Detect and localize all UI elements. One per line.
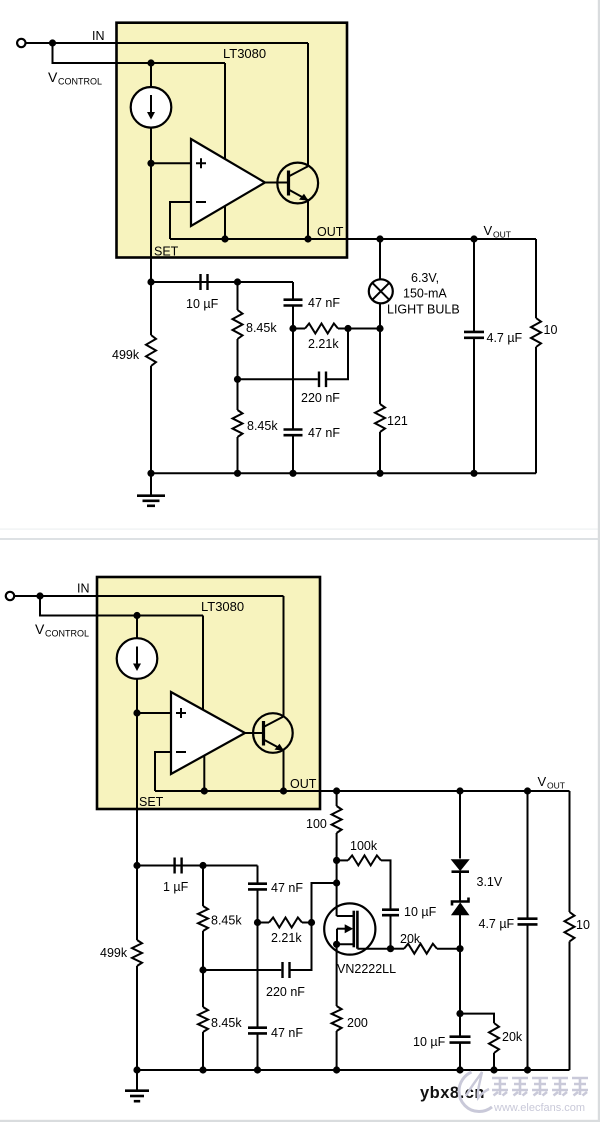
svg-text:8.45k: 8.45k <box>247 419 278 433</box>
svg-text:V: V <box>484 223 493 238</box>
svg-text:OUT: OUT <box>317 225 344 239</box>
wire op-amp plus input bottom <box>137 712 171 714</box>
label 8.45k lower bottom <box>211 1016 242 1030</box>
wire 47nF lower column bottom <box>257 923 259 1028</box>
svg-text:10: 10 <box>544 323 558 337</box>
label 1 uF <box>163 880 189 894</box>
node diode column tap OUT <box>456 787 463 794</box>
label SET pin bottom <box>139 795 164 809</box>
wire Vcontrol inside box bottom <box>97 615 203 617</box>
svg-text:CONTROL: CONTROL <box>45 629 89 639</box>
capacitor C 10uF mid <box>382 910 399 916</box>
wire minus feedback top <box>170 202 191 239</box>
svg-text:1 µF: 1 µF <box>163 880 189 894</box>
wire 100k left stub <box>337 859 348 861</box>
svg-text:3.1V: 3.1V <box>477 875 503 889</box>
wire current source feed top <box>150 63 152 87</box>
resistor R 100k <box>348 855 381 865</box>
wire SET row top <box>151 281 293 283</box>
capacitor C 47nF upper bottom <box>248 884 267 890</box>
resistor R 2.21k top <box>305 324 338 334</box>
svg-text:2.21k: 2.21k <box>271 931 302 945</box>
svg-text:121: 121 <box>387 414 408 428</box>
wire 2.21k right stub bottom <box>302 922 312 924</box>
wire 121 to rail top <box>379 432 381 473</box>
svg-text:47 nF: 47 nF <box>271 881 303 895</box>
capacitor C 10uF top <box>199 274 208 290</box>
capacitor C 4.7uF bottom <box>518 919 538 925</box>
node gate link junction <box>333 879 340 886</box>
svg-text:OUT: OUT <box>547 781 565 791</box>
ground symbol top <box>137 473 165 506</box>
wire clamp column lower <box>459 949 461 1014</box>
node 2.21k right top <box>344 325 351 332</box>
wire 8.45k upper feed bottom <box>202 866 204 907</box>
node rail 10uF bottom <box>456 1066 463 1073</box>
label 10 uF bottom <box>413 1035 446 1049</box>
node op-amp V- junction top <box>221 235 228 242</box>
node current source tap top <box>147 59 154 66</box>
capacitor C 10uF bottom <box>450 1037 471 1043</box>
resistor R 20k horizontal <box>404 944 437 954</box>
node cap4.7 tap OUT top <box>470 235 477 242</box>
label 20k vertical <box>502 1030 523 1044</box>
wire SET row bottom <box>137 865 258 867</box>
resistor R 2.21k bottom <box>269 918 302 928</box>
wire zener to 20k node <box>459 915 461 949</box>
label VOUT top <box>484 223 511 240</box>
wire 499k feed top <box>150 282 152 335</box>
wire cap4.7 column lower top <box>473 338 475 474</box>
watermark elecfans chinese text <box>492 1078 588 1096</box>
node junction Vcontrol tap bottom <box>36 592 43 599</box>
svg-text:2.21k: 2.21k <box>308 337 339 351</box>
wire OUT rail bottom <box>284 790 570 792</box>
wire IN rail inside box top <box>116 42 308 44</box>
svg-text:220 nF: 220 nF <box>301 391 340 405</box>
label 499k bottom <box>100 946 128 960</box>
svg-text:6.3V,: 6.3V, <box>411 271 439 285</box>
capacitor C 47nF upper top <box>284 300 303 306</box>
wire feedback row bottom <box>155 790 284 792</box>
node rail 200 bottom <box>333 1066 340 1073</box>
op-amp A2 bottom <box>171 692 245 774</box>
wire 20k vertical to rail <box>493 1053 495 1070</box>
svg-text:220 nF: 220 nF <box>266 985 305 999</box>
wire 47nF to midrow bottom <box>257 889 259 922</box>
wire 100 to gate node <box>336 833 338 916</box>
svg-text:OUT: OUT <box>290 777 317 791</box>
wire 10 resistor lower bottom <box>569 942 571 1071</box>
svg-text:SET: SET <box>139 795 164 809</box>
node rail 47nF top <box>289 470 296 477</box>
svg-text:499k: 499k <box>112 348 140 362</box>
svg-text:IN: IN <box>92 29 105 43</box>
wire gate link row <box>312 883 337 923</box>
label 4.7 uF top <box>487 331 523 345</box>
ground symbol bottom <box>125 1070 149 1101</box>
wire midrow right stub top <box>338 328 380 330</box>
svg-text:100k: 100k <box>350 839 378 853</box>
wire IN rail top <box>26 42 309 44</box>
IC body LT3080 U1 (yellow box) <box>117 23 348 258</box>
resistor R 10 bottom <box>565 912 575 942</box>
label 10 uF top <box>186 297 219 311</box>
wire IN rail inside box bottom <box>97 595 284 597</box>
wire 2.21k left stub bottom <box>258 922 270 924</box>
label 2.21k top <box>308 337 339 351</box>
label VN2222LL <box>337 962 396 976</box>
label SET pin top <box>154 245 179 259</box>
svg-text:VN2222LL: VN2222LL <box>337 962 396 976</box>
wire 20k left stub <box>391 948 405 950</box>
wire 499k lower bottom <box>136 966 138 1070</box>
svg-text:8.45k: 8.45k <box>211 1016 242 1030</box>
wire OUT rail top <box>308 238 536 240</box>
node current source tap bottom <box>133 612 140 619</box>
label 4.7 uF bottom <box>479 917 515 931</box>
wire base drive top <box>265 182 289 184</box>
wire 47nF to midrow top <box>292 306 294 329</box>
wire 100k right jog <box>381 860 391 909</box>
right border line <box>598 0 600 1122</box>
wire Vout right column bottom <box>569 791 571 912</box>
wire 4.7uF column lower bottom <box>527 924 529 1070</box>
wire 8.45k lower feed bottom <box>202 970 204 1007</box>
resistor R 10 top <box>531 318 541 347</box>
label IN pin top <box>92 29 105 43</box>
watermark ybx8.cn <box>420 1084 485 1102</box>
wire 8.45k to 220nF node top <box>237 339 239 379</box>
capacitor C 47nF lower bottom <box>248 1028 267 1034</box>
svg-text:IN: IN <box>77 582 90 596</box>
wire 10uF bottom column <box>459 1014 461 1037</box>
wire 220nF left row top <box>238 378 318 380</box>
wire collector column top <box>307 43 309 166</box>
svg-text:SET: SET <box>154 245 179 259</box>
node midrow left bottom <box>254 919 261 926</box>
label 10 uF mid <box>404 905 437 919</box>
svg-text:47 nF: 47 nF <box>308 426 340 440</box>
label 8.45k upper bottom <box>211 914 242 928</box>
wire collector column bottom <box>283 596 285 717</box>
wire 47nF lower to rail top <box>292 435 294 473</box>
label 100 <box>306 817 327 831</box>
watermark elecfans url <box>493 1102 585 1114</box>
label 47 nF upper bottom <box>271 881 303 895</box>
wire 499k lower top <box>150 366 152 473</box>
wire Vout right column top <box>535 239 537 318</box>
label 220 nF bottom <box>266 985 305 999</box>
node rail 499k bottom <box>133 1066 140 1073</box>
label LIGHT BULB <box>387 303 460 317</box>
wire Vcontrol jog top <box>53 43 226 63</box>
label plus input bottom <box>176 708 186 718</box>
wire 47nF top column <box>292 282 294 300</box>
label 6.3V bulb <box>411 271 439 285</box>
node midrow left top <box>289 325 296 332</box>
svg-text:150-mA: 150-mA <box>403 287 447 301</box>
node op-amp V- junction bottom <box>201 787 208 794</box>
watermark elecfans swirl icon <box>459 1072 492 1112</box>
resistor R 20k vertical <box>489 1023 499 1053</box>
node rail 4.7uF bottom <box>524 1066 531 1073</box>
current source I1 top <box>131 87 172 128</box>
node 8.45k top tap <box>234 278 241 285</box>
svg-text:V: V <box>538 774 547 789</box>
svg-text:OUT: OUT <box>493 230 511 240</box>
resistor R 499k bottom <box>132 940 142 966</box>
wire IN rail bottom <box>14 595 283 597</box>
label 220 nF top <box>301 391 340 405</box>
svg-text:V: V <box>48 69 58 85</box>
node bulb bottom junction top <box>376 325 383 332</box>
node 220nF left junction top <box>234 376 241 383</box>
svg-text:ybx8.cn: ybx8.cn <box>420 1084 485 1102</box>
node zener clamp junction <box>456 945 463 952</box>
transistor Q1 top <box>277 163 318 204</box>
capacitor C 220nF top <box>318 372 327 388</box>
mosfet Q3 VN2222LL <box>324 903 390 954</box>
svg-text:CONTROL: CONTROL <box>58 77 102 87</box>
svg-text:20k: 20k <box>400 932 421 946</box>
wire Vcontrol jog bottom <box>40 596 203 616</box>
wire 4.7uF column upper bottom <box>527 791 529 919</box>
transistor Q2 bottom <box>253 713 293 753</box>
svg-text:4.7 µF: 4.7 µF <box>479 917 515 931</box>
wire 499k feed bottom <box>136 866 138 941</box>
label 8.45k upper top <box>246 321 277 335</box>
wire emitter column bottom <box>283 750 285 791</box>
node rail 499k top <box>147 470 154 477</box>
wire current source feed bottom <box>136 616 138 639</box>
label LT3080 bottom <box>201 599 244 614</box>
label 10 top <box>544 323 558 337</box>
wire ground rail bottom <box>137 1069 570 1071</box>
node SET row left bottom <box>133 862 140 869</box>
wire ground rail top <box>151 472 536 474</box>
wire source column to 200 <box>336 944 338 1006</box>
resistor R 8.45k lower bottom <box>198 1007 208 1032</box>
wire op-amp V- stub bottom <box>203 756 205 791</box>
input terminal (bottom circuit) <box>6 592 14 600</box>
label 8.45k lower top <box>247 419 278 433</box>
resistor R 121 top <box>375 404 385 432</box>
node 100k left junction <box>333 857 340 864</box>
svg-text:10: 10 <box>576 918 590 932</box>
wire 10uF bottom to rail <box>459 1043 461 1070</box>
svg-text:LT3080: LT3080 <box>201 599 244 614</box>
svg-text:200: 200 <box>347 1016 368 1030</box>
wire op-amp V+ stub top <box>224 63 226 160</box>
svg-text:LIGHT BULB: LIGHT BULB <box>387 303 460 317</box>
svg-text:10 µF: 10 µF <box>413 1035 446 1049</box>
wire between diodes <box>459 872 461 902</box>
wire 2.21k down jog top <box>326 329 348 380</box>
wire op-amp V- stub top <box>224 206 226 239</box>
node SET row left top <box>147 278 154 285</box>
wire Vcontrol inside box top <box>116 62 225 64</box>
wire 200 to rail <box>336 1031 338 1070</box>
label VCONTROL top <box>48 69 102 87</box>
label 150-mA bulb <box>403 287 447 301</box>
label 2.21k bottom <box>271 931 302 945</box>
wire 220nF left row bottom <box>203 969 281 971</box>
capacitor C 47nF lower top <box>284 430 303 436</box>
wire bulb to node top <box>379 303 381 329</box>
wire 121 feed top <box>379 329 381 405</box>
label plus input top <box>196 158 206 168</box>
node rail 8.45k bottom <box>199 1066 206 1073</box>
label 200 <box>347 1016 368 1030</box>
wire 47nF lower to rail bottom <box>257 1033 259 1070</box>
label 47 nF upper top <box>308 296 340 310</box>
wire 8.45k lower to rail bottom <box>202 1032 204 1070</box>
label OUT pin bottom <box>290 777 317 791</box>
capacitor C 220nF bottom <box>281 962 290 978</box>
label 499k top <box>112 348 140 362</box>
resistor R 8.45k lower top <box>233 410 243 437</box>
node mosfet source junction <box>333 941 340 948</box>
current source I2 bottom <box>117 638 158 679</box>
label 47 nF lower top <box>308 426 340 440</box>
input terminal (top circuit) <box>17 39 25 47</box>
wire 8.45k lower to rail top <box>237 437 239 473</box>
svg-text:4.7 µF: 4.7 µF <box>487 331 523 345</box>
diode D1 <box>452 860 470 872</box>
svg-text:10 µF: 10 µF <box>404 905 437 919</box>
svg-text:www.elecfans.com: www.elecfans.com <box>493 1102 585 1114</box>
wire OUT to 100 resistor <box>336 791 338 806</box>
node rail 8.45k top <box>234 470 241 477</box>
wire 8.45k upper feed top <box>237 282 239 310</box>
wire feedback row top <box>170 238 308 240</box>
op-amp A1 top <box>191 139 265 226</box>
svg-text:V: V <box>35 621 45 637</box>
capacitor C 4.7uF top <box>464 332 484 338</box>
label 121 top <box>387 414 408 428</box>
svg-text:8.45k: 8.45k <box>211 914 242 928</box>
node 8.45k tap bottom <box>199 862 206 869</box>
label VOUT bottom <box>538 774 565 791</box>
node 4.7uF tap OUT bottom <box>524 787 531 794</box>
node plus input junction top <box>147 160 154 167</box>
separator line between images <box>0 529 600 541</box>
node 2.21k right bottom <box>308 919 315 926</box>
label 3.1V <box>477 875 503 889</box>
label 20k horizontal <box>400 932 421 946</box>
IC body LT3080 U2 (yellow box) <box>97 577 320 809</box>
svg-text:8.45k: 8.45k <box>246 321 277 335</box>
node rail 20k bottom <box>490 1066 497 1073</box>
wire diode column upper <box>459 791 461 859</box>
wire 10uF mid to source row <box>390 915 392 949</box>
label VCONTROL bottom <box>35 621 89 639</box>
label LT3080 top <box>223 46 266 61</box>
svg-text:100: 100 <box>306 817 327 831</box>
node rail 47nF bottom <box>254 1066 261 1073</box>
resistor R 100 <box>332 806 342 833</box>
wire 20k vertical jog <box>460 1014 494 1023</box>
node rail 121 top <box>376 470 383 477</box>
svg-text:20k: 20k <box>502 1030 523 1044</box>
svg-text:499k: 499k <box>100 946 128 960</box>
node 20k row left junction <box>387 945 394 952</box>
label IN pin bottom <box>77 582 90 596</box>
wire SET column upper bottom <box>136 679 138 866</box>
wire 8.45k to 220nF node bottom <box>202 931 204 970</box>
node OUT junction bottom <box>280 787 287 794</box>
svg-text:LT3080: LT3080 <box>223 46 266 61</box>
lamp DS1 light bulb <box>369 279 393 303</box>
node 10uF-20k junction <box>456 1010 463 1017</box>
wire base drive bottom <box>245 732 264 734</box>
wire op-amp V+ stub bottom <box>202 616 204 711</box>
wire 47nF lower column top <box>292 329 294 430</box>
node OUT junction top <box>304 235 311 242</box>
label 47 nF lower bottom <box>271 1026 303 1040</box>
resistor R 8.45k upper bottom <box>198 906 208 931</box>
wire bulb feed top <box>379 239 381 280</box>
wire midrow left stub top <box>293 328 305 330</box>
svg-text:47 nF: 47 nF <box>271 1026 303 1040</box>
wire 2.21k down jog bottom <box>290 923 312 971</box>
wire op-amp plus input top <box>151 162 191 164</box>
resistor R 200 <box>332 1006 342 1031</box>
resistor R 8.45k upper top <box>233 310 243 339</box>
node 220nF left junction bottom <box>199 966 206 973</box>
node 100 resistor tap <box>333 787 340 794</box>
wire 8.45k lower feed top <box>237 379 239 410</box>
node bulb tap OUT top <box>376 235 383 242</box>
capacitor C 1uF <box>173 858 182 874</box>
zener diode D2 <box>452 898 469 915</box>
label minus input top <box>196 201 206 203</box>
svg-text:47 nF: 47 nF <box>308 296 340 310</box>
node plus input junction bottom <box>133 709 140 716</box>
wire minus feedback bottom <box>155 752 171 791</box>
svg-text:10 µF: 10 µF <box>186 297 219 311</box>
wire SET column upper top <box>150 128 152 282</box>
label minus input bottom <box>176 751 186 753</box>
wire emitter column top <box>307 200 309 239</box>
node junction Vcontrol tap top <box>49 39 56 46</box>
bottom border line <box>0 1120 600 1122</box>
wire cap4.7 column upper top <box>473 239 475 332</box>
wire 47nF column upper bottom <box>257 866 259 884</box>
wire 10 resistor bottom top <box>535 347 537 473</box>
label OUT pin top <box>317 225 344 239</box>
resistor R 499k top <box>146 335 156 366</box>
label 100k <box>350 839 378 853</box>
node rail 4.7uF top <box>470 470 477 477</box>
label 10 bottom <box>576 918 590 932</box>
wire 20k to diode column <box>437 948 460 950</box>
